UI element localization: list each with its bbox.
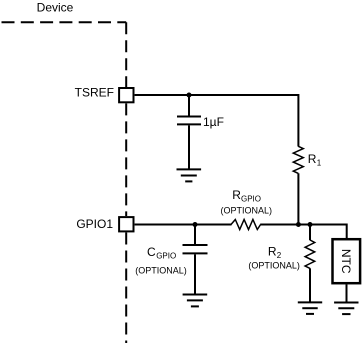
svg-text:NTC: NTC	[339, 249, 353, 274]
svg-text:2: 2	[277, 251, 282, 260]
svg-text:(OPTIONAL): (OPTIONAL)	[135, 265, 187, 275]
svg-text:(OPTIONAL): (OPTIONAL)	[221, 206, 273, 216]
svg-text:(OPTIONAL): (OPTIONAL)	[248, 260, 300, 270]
svg-text:1µF: 1µF	[203, 115, 224, 129]
svg-text:TSREF: TSREF	[75, 85, 114, 99]
svg-text:GPIO: GPIO	[156, 251, 176, 260]
svg-text:R: R	[232, 188, 241, 202]
svg-text:R: R	[268, 245, 277, 259]
svg-text:C: C	[147, 245, 156, 259]
svg-text:GPIO: GPIO	[241, 194, 261, 203]
svg-text:R: R	[308, 152, 317, 166]
svg-text:GPIO1: GPIO1	[76, 217, 113, 231]
svg-text:1: 1	[317, 158, 322, 167]
svg-text:Device: Device	[37, 1, 74, 15]
